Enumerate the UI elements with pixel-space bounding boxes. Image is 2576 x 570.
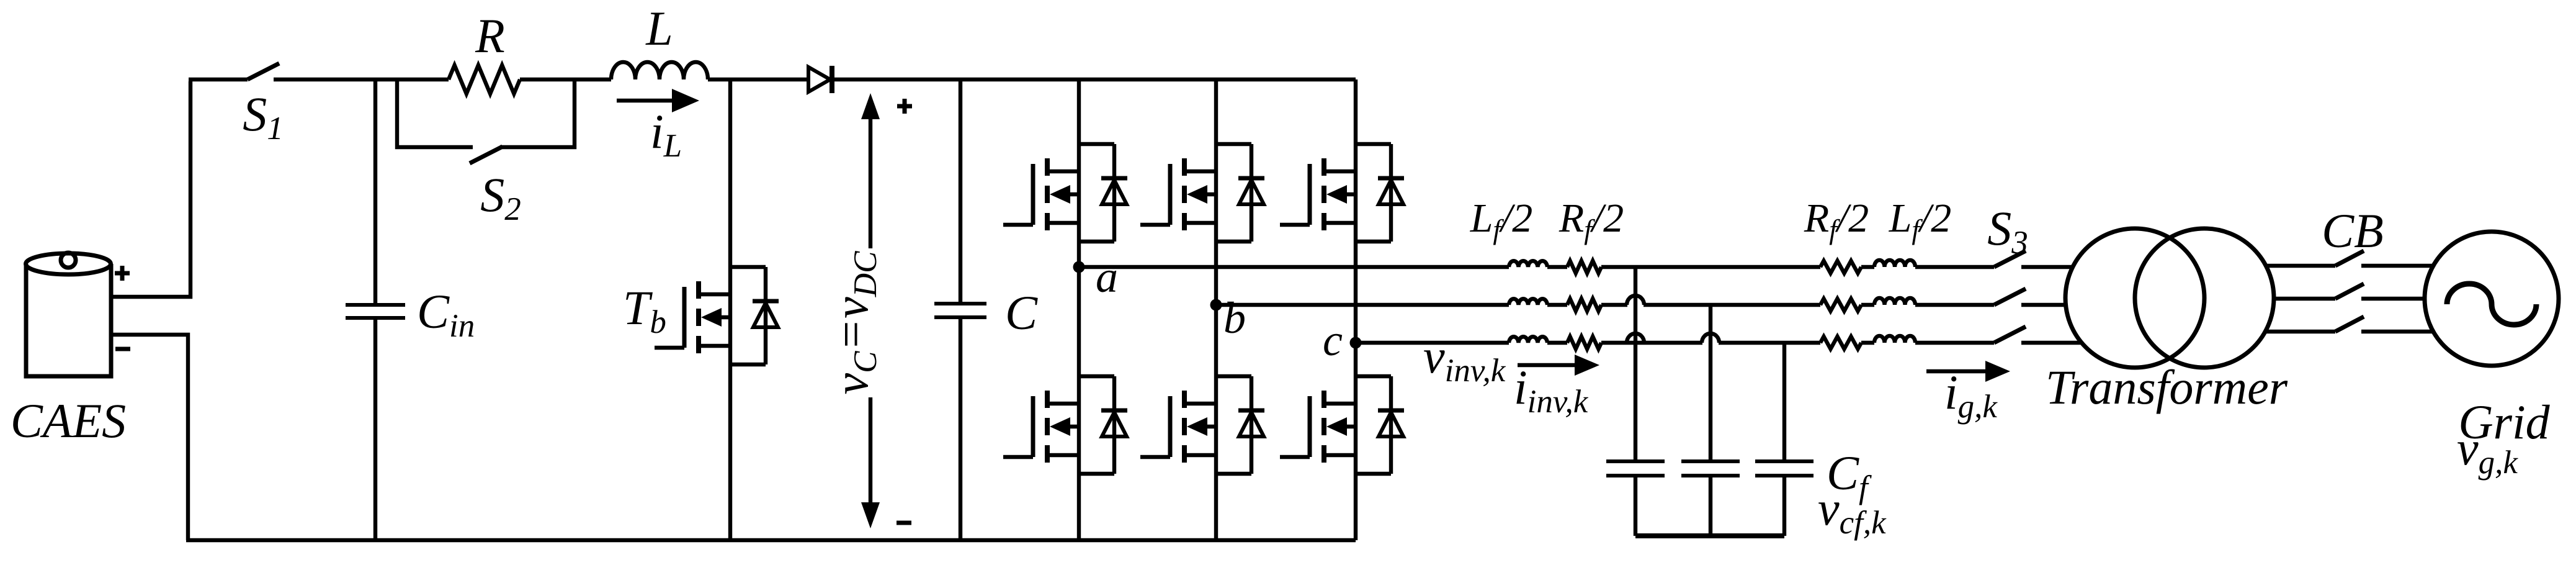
capacitor Cf phase c — [1755, 343, 1813, 536]
node a — [1073, 261, 1085, 273]
svg-text:Lf/2: Lf/2 — [1470, 196, 1533, 245]
inverter leg a wire — [1077, 79, 1081, 540]
label node c — [1323, 315, 1343, 365]
secondary line 2 right — [2361, 297, 2425, 301]
label Tb — [623, 281, 666, 340]
wire S1 to R — [274, 78, 449, 81]
label S1 — [243, 87, 284, 147]
switch S2 — [470, 147, 503, 163]
transistor Tb leg wire — [728, 79, 732, 540]
label Cf — [1827, 446, 1872, 505]
inverter leg b wire — [1214, 79, 1218, 540]
S2 bypass branch left — [397, 79, 473, 147]
CAES label — [11, 394, 126, 448]
svg-text:c: c — [1323, 315, 1343, 365]
secondary line 3 right — [2361, 330, 2433, 333]
capacitor Cf phase b — [1681, 305, 1740, 536]
svg-text:Lf/2: Lf/2 — [1889, 196, 1952, 245]
transistor c-top — [1280, 144, 1404, 242]
wire CAES+ up to top rail — [111, 81, 190, 297]
wire L to diode — [708, 78, 808, 81]
label vC=vDC — [824, 251, 883, 395]
Cf neutral bus — [1635, 533, 1784, 538]
phase line b — [1216, 289, 2066, 311]
CAES tank symbol — [26, 253, 112, 376]
switch S1 — [248, 63, 279, 79]
circuit breaker CB pole 2 — [2335, 284, 2364, 299]
transistor b-bottom — [1140, 376, 1264, 474]
grid source circle — [2425, 232, 2559, 366]
wire R to L — [520, 78, 611, 81]
inductor L — [611, 62, 708, 79]
svg-text:L: L — [645, 1, 673, 55]
label v_cf_k — [1818, 481, 1887, 541]
transformer secondary winding — [2135, 228, 2274, 368]
label Rf/2 (1st) — [1559, 196, 1624, 245]
svg-text:Transformer: Transformer — [2046, 360, 2288, 414]
node c — [1350, 337, 1362, 349]
label v_inv_k — [1423, 329, 1506, 389]
CAES plus terminal — [115, 266, 130, 281]
secondary line 3 left — [2265, 330, 2335, 333]
minus sign vDC — [897, 521, 911, 525]
transistor a-bottom — [1003, 376, 1127, 474]
label i_g_k — [1944, 365, 1998, 425]
label Cin — [417, 284, 475, 344]
wire top rail left — [189, 78, 248, 81]
secondary line 1 right — [2361, 264, 2433, 268]
wire bottom rail — [186, 538, 1356, 542]
label C — [1005, 286, 1038, 340]
capacitor C — [934, 79, 986, 540]
inverter leg c wire — [1354, 79, 1357, 540]
capacitor Cin — [346, 79, 405, 540]
label CB — [2322, 204, 2384, 258]
wire diode to inverter — [832, 78, 1356, 81]
svg-text:R: R — [475, 9, 505, 63]
svg-text:a: a — [1096, 252, 1118, 302]
phase line a — [1079, 251, 2073, 273]
circuit breaker CB pole 3 — [2335, 317, 2364, 332]
arrow i_g_k — [1926, 361, 2010, 382]
plus sign vDC — [897, 99, 912, 114]
S2 bypass branch right — [500, 79, 575, 147]
node b — [1210, 299, 1222, 311]
label S2 — [480, 168, 521, 227]
label L — [645, 1, 673, 55]
secondary line 1 left — [2266, 264, 2335, 268]
transistor Tb — [655, 267, 779, 364]
transistor b-top — [1140, 144, 1264, 242]
arrow vC=vDC — [861, 93, 880, 528]
svg-text:CB: CB — [2322, 204, 2384, 258]
label node b — [1223, 293, 1246, 343]
label S3 — [1987, 201, 2028, 261]
secondary line 2 left — [2274, 297, 2335, 301]
label Rf/2 (2nd) — [1804, 196, 1869, 245]
label Grid — [2458, 395, 2550, 449]
resistor R — [449, 65, 520, 94]
arrow iL — [617, 89, 699, 112]
label iL — [650, 104, 682, 164]
grid sine wave — [2447, 284, 2536, 325]
svg-text:C: C — [1005, 286, 1038, 340]
svg-text:b: b — [1223, 293, 1246, 343]
arrow i_inv_k — [1518, 355, 1599, 376]
transformer primary winding — [2065, 228, 2204, 368]
capacitor Cf phase a — [1606, 267, 1665, 536]
transistor a-top — [1003, 144, 1127, 242]
label Transformer — [2046, 360, 2288, 414]
label node a — [1096, 252, 1118, 302]
label i_inv_k — [1514, 360, 1589, 420]
label Lf/2 (2nd) — [1889, 196, 1952, 245]
diode D — [808, 66, 832, 93]
circuit breaker CB pole 1 — [2335, 251, 2364, 266]
label Lf/2 (1st) — [1470, 196, 1533, 245]
label v_g_k — [2457, 421, 2518, 481]
transistor c-bottom — [1280, 376, 1404, 474]
CAES minus terminal — [115, 347, 130, 351]
wire CAES- down to bottom rail — [111, 335, 188, 540]
svg-text:CAES: CAES — [11, 394, 126, 448]
phase line c — [1356, 327, 2082, 349]
label R — [475, 9, 505, 63]
